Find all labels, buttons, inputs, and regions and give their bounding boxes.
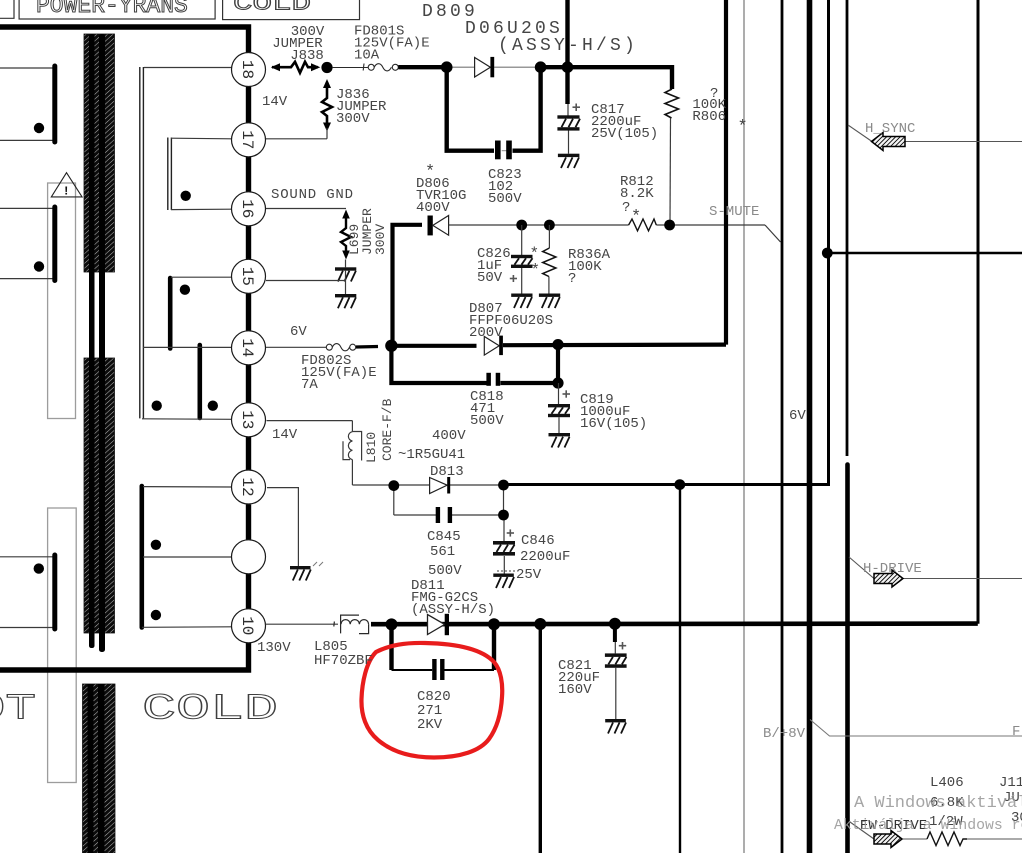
svg-text:6V: 6V bbox=[789, 408, 806, 424]
svg-text:130V: 130V bbox=[257, 640, 291, 656]
svg-text:*: * bbox=[531, 262, 541, 280]
svg-text:*: * bbox=[530, 245, 540, 263]
svg-text:?: ? bbox=[568, 271, 576, 287]
svg-text:14: 14 bbox=[238, 338, 256, 357]
svg-text:HOT: HOT bbox=[0, 689, 36, 730]
svg-text:300V: 300V bbox=[373, 224, 388, 255]
svg-text:SOUND GND: SOUND GND bbox=[271, 187, 354, 203]
svg-text:561: 561 bbox=[430, 544, 455, 560]
svg-text:COLD: COLD bbox=[142, 689, 278, 730]
svg-text:200V: 200V bbox=[469, 325, 503, 341]
svg-text:15: 15 bbox=[238, 267, 256, 286]
svg-text:!: ! bbox=[63, 185, 70, 199]
svg-text:300V: 300V bbox=[336, 111, 370, 127]
svg-text:A Windows aktiválásá: A Windows aktiválásá bbox=[854, 794, 1022, 813]
svg-text:*: * bbox=[738, 118, 748, 137]
svg-text:H_SYNC: H_SYNC bbox=[865, 121, 915, 137]
svg-text:R806: R806 bbox=[692, 109, 726, 125]
svg-text:12: 12 bbox=[238, 477, 256, 496]
svg-text:6V: 6V bbox=[290, 324, 307, 340]
svg-text:160V: 160V bbox=[558, 682, 592, 698]
svg-text:13: 13 bbox=[238, 410, 256, 429]
svg-text:10: 10 bbox=[238, 616, 256, 635]
svg-text:25V: 25V bbox=[516, 567, 542, 583]
svg-text:POWER-YRANS: POWER-YRANS bbox=[36, 0, 188, 19]
svg-text:14V: 14V bbox=[272, 427, 298, 443]
svg-text:400V: 400V bbox=[432, 428, 466, 444]
svg-text:?: ? bbox=[622, 200, 630, 216]
svg-text:2KV: 2KV bbox=[417, 717, 443, 733]
svg-text:H-DRIVE: H-DRIVE bbox=[863, 561, 922, 577]
svg-text:400V: 400V bbox=[416, 200, 450, 216]
svg-text:CORE-F/B: CORE-F/B bbox=[380, 398, 395, 461]
svg-text:D813: D813 bbox=[430, 464, 464, 480]
svg-text:2200uF: 2200uF bbox=[520, 549, 570, 565]
svg-text:*: * bbox=[425, 163, 435, 182]
svg-text:14V: 14V bbox=[262, 94, 288, 110]
svg-text:Aktiválja a Windows rendszerét: Aktiválja a Windows rendszerét bbox=[834, 818, 1022, 834]
svg-text:B/+8V: B/+8V bbox=[763, 726, 806, 742]
svg-text:C846: C846 bbox=[521, 533, 555, 549]
svg-text:500V: 500V bbox=[428, 563, 462, 579]
svg-text:17: 17 bbox=[238, 130, 256, 149]
svg-text:7A: 7A bbox=[301, 377, 318, 393]
svg-text:16: 16 bbox=[238, 199, 256, 218]
svg-text:500V: 500V bbox=[488, 191, 522, 207]
svg-text:S-MUTE: S-MUTE bbox=[709, 204, 759, 220]
svg-text:J838: J838 bbox=[290, 48, 324, 64]
svg-text:*: * bbox=[631, 208, 641, 227]
svg-text:10A: 10A bbox=[354, 48, 380, 64]
svg-text:L406: L406 bbox=[930, 775, 964, 791]
svg-text:18: 18 bbox=[238, 60, 256, 79]
svg-text:(ASSY-H/S): (ASSY-H/S) bbox=[498, 36, 638, 56]
svg-text:50V: 50V bbox=[477, 270, 503, 286]
svg-text:F: F bbox=[1012, 724, 1020, 740]
svg-text:J11: J11 bbox=[999, 775, 1022, 791]
svg-text:C845: C845 bbox=[427, 529, 461, 545]
svg-text:HF70ZBF: HF70ZBF bbox=[314, 653, 373, 669]
svg-text:(ASSY-H/S): (ASSY-H/S) bbox=[411, 602, 495, 618]
svg-text:~1R5GU41: ~1R5GU41 bbox=[398, 447, 465, 463]
svg-text:16V(105): 16V(105) bbox=[580, 416, 647, 432]
svg-text:500V: 500V bbox=[470, 413, 504, 429]
svg-text:25V(105): 25V(105) bbox=[591, 126, 658, 142]
svg-text:L810: L810 bbox=[364, 432, 379, 463]
svg-text:COLD: COLD bbox=[233, 0, 311, 16]
